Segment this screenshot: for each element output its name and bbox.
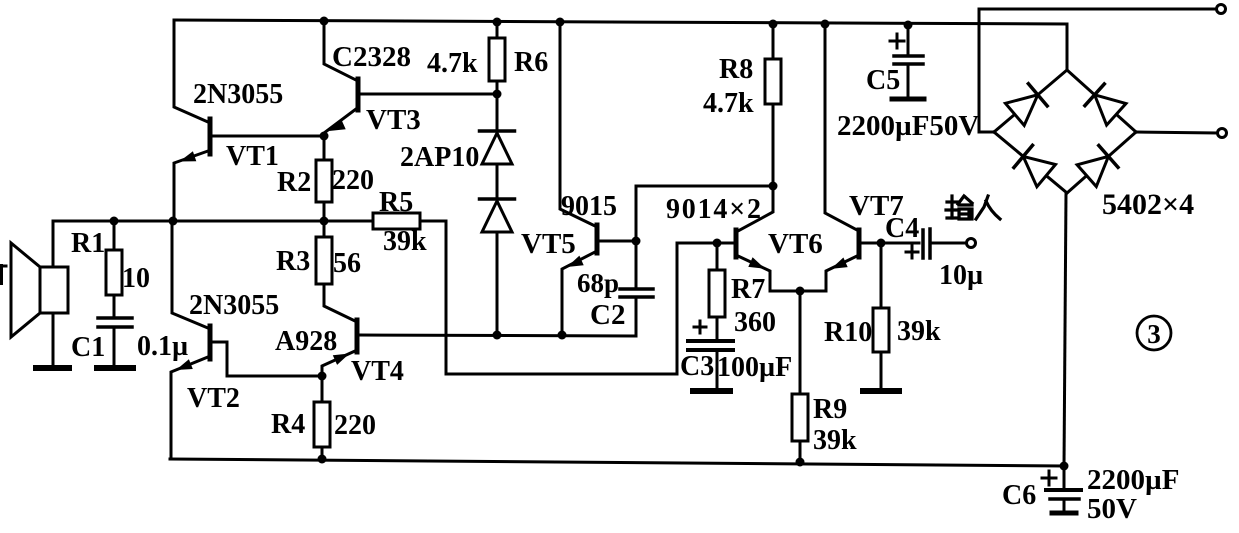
resistor R2 [316,160,332,202]
wire R8 top lead [772,24,775,59]
wire output mid rail right segment to R5 [420,220,446,223]
wire VT3 base line to R6 bottom [360,93,492,96]
resistor R7 [709,270,725,317]
wire R2 bottom lead [323,202,326,221]
svg-text:R7: R7 [731,274,765,305]
wire bridge bottom to rail [1064,193,1066,466]
svg-text:R10: R10 [824,317,872,348]
wire VT2 base line [212,342,317,376]
wire top +V rail [174,20,1067,24]
ground C3 [693,388,730,394]
svg-text:10µ: 10µ [939,260,983,291]
capacitor C5 plus sign [890,40,904,43]
transistor VT2 base bar [208,326,213,359]
wire VT6-VT7 emitter join [770,290,826,293]
capacitor C1 [98,316,132,320]
svg-text:39k: 39k [897,316,941,347]
wire VT2 collector to output rail [172,221,208,328]
node bottom rail / C6 junction [1060,462,1069,471]
wire AC terminal 2 [1136,132,1217,133]
wire top rail down to bridge top vertex [1066,24,1069,70]
svg-text:A928: A928 [275,326,337,357]
svg-text:2AP10: 2AP10 [400,142,479,173]
wire R6 to diode D1 [496,94,499,131]
transistor VT3 base bar [356,79,361,110]
svg-text:56: 56 [333,248,361,279]
transistor VT6 base bar [734,230,739,257]
wire C2 bottom lead [635,298,638,336]
wire VT7 collector [825,24,857,230]
svg-text:VT5: VT5 [521,228,576,260]
svg-text:2200µF: 2200µF [1087,464,1179,496]
svg-text:39k: 39k [813,425,857,456]
wire R7 to C3 [716,317,719,340]
wire speaker bottom to ground [52,313,55,366]
wire R8 bottom lead [772,104,775,186]
node R9 on bottom rail [796,458,805,467]
wire R10 bottom lead [880,352,883,389]
wire R6 top lead [496,22,499,38]
svg-text:2N3055: 2N3055 [193,79,283,110]
wire VT1 emitter [174,151,208,221]
terminal AC2 [1218,129,1227,138]
label figure number 3 circled [1137,316,1171,350]
wire bridge edge left-top [994,70,1067,132]
wire C1 bottom lead [113,328,116,366]
wire VT1 collector to top rail [174,20,208,122]
svg-text:R3: R3 [276,246,310,277]
wire feedback from R5 to VT6 base [446,221,734,374]
wire VT3 emitter [324,109,356,136]
svg-text:VT2: VT2 [187,383,240,414]
node R8 bottom / VT6 collector junction [769,182,778,191]
wire VT6 emitter [738,256,770,291]
svg-text:3: 3 [1147,319,1161,349]
node R4 on bottom rail [318,455,327,464]
diode D2 2AP10 [480,197,515,201]
wire R3 top lead [323,221,326,237]
svg-text:100µF: 100µF [717,352,792,383]
capacitor C3 [688,339,733,343]
node VT1 emitter / output rail junction [169,217,178,226]
svg-text:R1: R1 [71,228,105,259]
svg-text:C3: C3 [680,351,714,382]
resistor R9 [792,394,808,441]
wire R9 top lead [799,291,802,394]
svg-text:R6: R6 [514,47,548,78]
svg-text:VT4: VT4 [351,356,404,387]
wire edge mark [0,266,3,283]
arrow VT4 emitter (PNP toward bar) [333,354,350,365]
wire C5 top lead [907,25,910,54]
resistor R6 [489,38,505,81]
svg-text:360: 360 [734,307,776,338]
svg-text:9014×2: 9014×2 [666,194,763,225]
diode D6 bridge lower-right [1077,156,1108,186]
capacitor C6 [1046,488,1081,492]
node VT5 base / C2 / R8 link junction [632,237,641,246]
wire VT2 emitter [171,357,208,459]
svg-text:0.1µ: 0.1µ [137,331,188,362]
capacitor C6 plus sign [1042,477,1056,480]
svg-text:C6: C6 [1002,480,1036,511]
transistor VT5 base bar [595,225,600,253]
svg-text:4.7k: 4.7k [427,48,478,79]
diode D1 2AP10 [480,129,515,133]
ground C1 [97,365,133,371]
resistor R8 [765,59,781,104]
resistor R10 [873,308,889,352]
svg-text:68p: 68p [577,268,619,298]
wire R1 top lead [113,221,116,250]
label shuru (input) [946,196,1000,219]
wire D2 to bias line [496,232,499,335]
speaker LS1 horn [11,243,40,337]
svg-text:220: 220 [332,165,374,196]
svg-text:9015: 9015 [561,191,617,222]
node R6 bottom / VT3 base junction [493,90,502,99]
svg-text:39k: 39k [383,226,427,257]
wire bridge left stub [979,131,994,134]
wire output mid rail left segment [53,220,373,223]
svg-text:R4: R4 [271,409,305,440]
transistor VT1 base bar [208,119,213,154]
transistor VT7 base bar [857,230,862,257]
svg-text:R2: R2 [277,167,311,198]
wire R9 bottom lead [799,441,802,462]
svg-text:2N3055: 2N3055 [189,290,279,321]
node VT7 base / R10 junction [877,239,886,248]
svg-text:C2328: C2328 [332,41,411,73]
svg-text:C1: C1 [71,332,105,363]
wire R4 top lead [321,376,324,402]
ground speaker [36,365,69,371]
resistor R1 [106,250,122,295]
wire bridge edge bottom-left [994,132,1067,193]
wire bridge edge right-top [1067,70,1136,132]
svg-text:4.7k: 4.7k [703,88,754,119]
wire speaker top to output rail [52,221,55,267]
ground C6 end bar [1052,511,1076,516]
wire R1 to C1 [113,295,116,317]
wire VT5 base line [599,240,634,243]
node VT5 emitter on bias line [558,331,567,340]
node R6 top on rail [493,18,502,27]
svg-text:10: 10 [122,263,150,294]
wire bridge edge bottom-right [1067,132,1136,193]
node R7 top on VT6 base [713,239,722,248]
wire C6 bottom lead [1063,499,1066,511]
node VT4 emitter / VT2 base / R4 junction [318,372,327,381]
wire C5 bottom lead [907,64,910,97]
resistor R3 [316,237,332,284]
svg-text:R9: R9 [813,394,847,425]
arrow VT5 emitter [567,256,584,267]
wire VT5 emitter [562,252,595,335]
wire R10 top lead [880,243,883,308]
node VT7 collector on rail [821,20,830,29]
node R8 top on rail [769,20,778,29]
wire VT7 base line [861,242,919,245]
wire VT5 collector [560,22,595,226]
capacitor C4 [921,230,925,258]
speaker LS1 cone box [40,267,68,313]
wire D1 to D2 [496,164,499,199]
terminal input [967,239,976,248]
arrow VT1 emitter (NPN) [180,151,197,161]
svg-text:VT1: VT1 [226,141,279,172]
svg-text:50V: 50V [1087,493,1137,525]
capacitor C3 plus sign [694,326,706,329]
resistor R5 [373,213,420,229]
ground R10 [863,388,899,394]
arrow VT3 emitter (NPN) [329,120,346,131]
node R1 top junction [110,217,119,226]
wire R6 bottom lead [496,81,499,94]
svg-text:5402×4: 5402×4 [1102,188,1194,221]
terminal AC1 [1217,5,1226,14]
arrow VT2 emitter (NPN) [176,359,193,370]
diode D4 bridge upper-right [1095,95,1126,125]
node VT5 collector on top rail [556,18,565,27]
wire C2 top lead [635,241,638,286]
wire VT1 base line [212,135,324,138]
svg-text:2200µF50V: 2200µF50V [837,110,979,142]
wire R4 bottom lead [321,447,324,459]
svg-text:C4: C4 [885,213,919,244]
wire VT4 collector from R3 [324,284,355,321]
diode D3 bridge upper-left [1005,95,1037,126]
wire VT3 collector [324,21,356,80]
wire VT6 collector [738,186,773,231]
wire R7 top lead [716,243,719,270]
wire bias line VT4 base to C2 [359,335,636,336]
wire VT7 emitter [826,256,857,291]
capacitor C4 plus sign [906,251,918,254]
wire VT6 base line [677,242,734,245]
svg-text:C5: C5 [866,65,900,96]
wire C4 to input terminal [932,242,966,245]
svg-text:VT6: VT6 [768,228,823,260]
transistor VT4 base bar [355,320,360,352]
node VT3 emitter / VT1 base / R2 junction [320,132,329,141]
arrow VT6 emitter (NPN) [748,257,765,268]
wire C6 top lead [1063,466,1066,488]
arrow VT7 emitter (NPN) [831,258,848,269]
wire AC terminal 1 top [979,9,1216,132]
svg-text:R8: R8 [719,54,753,85]
node C5 top on rail [904,21,913,30]
wire bottom rail [170,459,1064,466]
wire C3 bottom lead [716,351,719,389]
capacitor C2 68p [620,287,653,291]
wire link VT5 base to R8 bottom [636,186,773,241]
svg-text:R5: R5 [379,187,413,218]
node R2/R3 on output rail [320,217,329,226]
node VT3 collector on top rail [320,17,329,26]
svg-text:220: 220 [334,410,376,441]
svg-text:C2: C2 [590,299,625,331]
resistor R4 [314,402,330,447]
wire R2 top lead [323,136,326,160]
diode D5 bridge lower-left [1023,156,1055,186]
capacitor C5 [894,54,923,58]
node diode chain on bias line [493,331,502,340]
svg-text:VT3: VT3 [366,104,421,136]
node emitter join / R9 top [796,287,805,296]
wire VT4 emitter [322,351,355,376]
ground C5 end bar [892,97,924,102]
